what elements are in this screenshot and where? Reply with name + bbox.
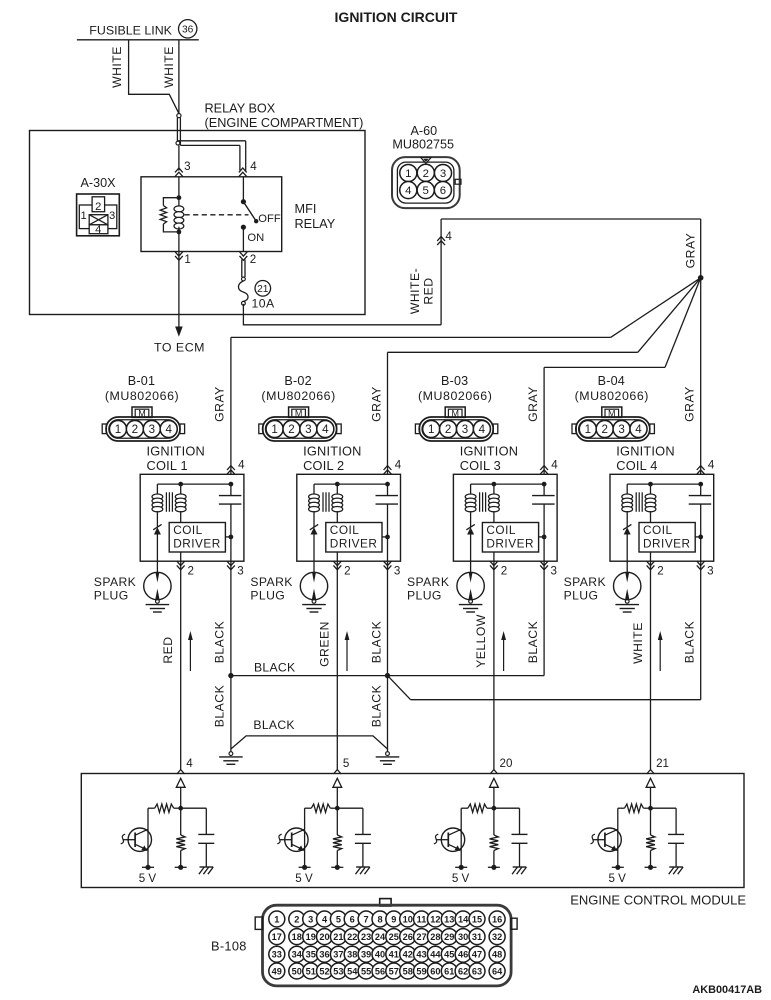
svg-text:2: 2 — [294, 914, 299, 924]
label RELAY BOX (ENGINE COMPARTMENT) — [205, 102, 364, 131]
svg-text:10: 10 — [403, 914, 413, 924]
svg-text:47: 47 — [472, 950, 482, 960]
ECM pin 4 entry — [176, 757, 193, 808]
ECM pin 5 entry — [333, 757, 349, 808]
svg-text:FUSIBLE LINK: FUSIBLE LINK — [89, 23, 172, 37]
svg-text:WHITE-: WHITE- — [408, 268, 422, 314]
svg-text:PLUG: PLUG — [94, 589, 129, 603]
terminal 5V pulldown cell 3 — [488, 865, 500, 870]
svg-text:13: 13 — [444, 914, 454, 924]
svg-text:COIL: COIL — [173, 523, 203, 537]
svg-text:11: 11 — [417, 914, 427, 924]
diode spark gap mark coil 2 — [310, 524, 318, 561]
svg-text:29: 29 — [444, 932, 454, 942]
svg-text:25: 25 — [389, 932, 399, 942]
svg-text:IGNITION CIRCUIT: IGNITION CIRCUIT — [335, 9, 458, 25]
svg-text:ENGINE CONTROL MODULE: ENGINE CONTROL MODULE — [570, 893, 746, 908]
label SPARK PLUG 1 — [94, 575, 136, 603]
connector A-60 symbol with pins 1-6 — [392, 157, 461, 208]
label MFI RELAY — [295, 202, 336, 231]
resistor base cell 3 — [461, 804, 494, 812]
relay box (engine compartment) enclosure — [30, 131, 366, 315]
svg-text:17: 17 — [272, 932, 282, 942]
svg-text:21: 21 — [257, 284, 269, 295]
connector B-03 labels — [418, 374, 492, 403]
svg-text:BLACK: BLACK — [254, 661, 295, 675]
svg-text:2: 2 — [95, 201, 101, 213]
svg-text:54: 54 — [347, 966, 358, 976]
terminal 5V emitter cell 2 — [299, 865, 311, 870]
svg-text:53: 53 — [333, 966, 343, 976]
svg-text:3: 3 — [551, 565, 557, 578]
coil driver U4 box — [639, 523, 695, 553]
label IGNITION COIL 1 — [147, 444, 205, 473]
wire YELLOW coil 3 pin 2 to ECM — [493, 561, 495, 769]
svg-text:58: 58 — [403, 966, 413, 976]
svg-text:35: 35 — [306, 950, 316, 960]
svg-text:4: 4 — [238, 459, 245, 472]
connector B-01 symbol with pins 1 2 3 4 — [102, 407, 184, 441]
svg-text:37: 37 — [333, 950, 343, 960]
svg-text:6: 6 — [350, 914, 355, 924]
wire coil driver output to pin 2 coil 1 — [180, 552, 182, 561]
capacitor C1 in coil 1 — [219, 484, 242, 561]
svg-text:32: 32 — [492, 932, 502, 942]
svg-text:SPARK: SPARK — [564, 575, 606, 589]
relay pin 1 exit arrow and label — [175, 252, 191, 266]
svg-text:2: 2 — [288, 423, 294, 436]
svg-text:A-30X: A-30X — [81, 176, 117, 190]
svg-text:43: 43 — [416, 950, 426, 960]
arrow TO ECM — [175, 327, 183, 337]
svg-text:16: 16 — [492, 914, 502, 924]
svg-text:COIL: COIL — [330, 523, 360, 537]
svg-text:38: 38 — [347, 950, 357, 960]
svg-text:1: 1 — [184, 253, 190, 266]
svg-text:3: 3 — [237, 565, 243, 578]
wire relay pin 2 double-line to fuse — [242, 260, 245, 278]
connector B-01 labels — [105, 374, 179, 403]
svg-text:21: 21 — [333, 932, 343, 942]
svg-text:41: 41 — [389, 950, 399, 960]
ignition coil 2 pin 4 entry arrow and label — [384, 459, 402, 475]
svg-text:4: 4 — [395, 459, 402, 472]
ignition coil 2 box — [297, 474, 401, 561]
svg-text:55: 55 — [361, 966, 371, 976]
svg-text:2: 2 — [445, 423, 451, 436]
transistor Q1 — [121, 808, 152, 867]
resistor pulldown cell 4 — [646, 808, 655, 867]
svg-text:(MU802066): (MU802066) — [261, 389, 335, 403]
svg-text:5: 5 — [423, 185, 429, 197]
capacitor C4 in coil 4 — [689, 484, 712, 561]
wire coil driver output to pin 2 coil 3 — [493, 552, 495, 561]
svg-text:4: 4 — [322, 423, 329, 436]
wire BLACK bus coil1-coil2 — [231, 675, 388, 677]
svg-text:DRIVER: DRIVER — [330, 537, 378, 551]
wire WHITE-RED riser to gray distribution node — [441, 219, 701, 325]
junction coil 1 black wire — [228, 673, 233, 678]
wire RED coil 1 pin 2 to ECM — [180, 561, 182, 769]
svg-text:33: 33 — [272, 950, 282, 960]
ignition coil 1 pin 3 exit arrow and label — [227, 561, 244, 577]
coil driver U1 box — [169, 523, 225, 553]
ignition coil 2 pin 3 exit arrow and label — [384, 561, 401, 577]
label SPARK PLUG 3 — [407, 575, 449, 603]
terminal 5V pulldown cell 4 — [645, 865, 657, 870]
label IGNITION COIL 2 — [303, 444, 361, 473]
svg-text:2: 2 — [188, 565, 194, 578]
svg-text:4: 4 — [708, 459, 715, 472]
svg-text:COIL 3: COIL 3 — [460, 458, 501, 473]
svg-text:64: 64 — [492, 966, 503, 976]
svg-text:52: 52 — [319, 966, 329, 976]
svg-text:3: 3 — [440, 168, 446, 180]
svg-text:31: 31 — [472, 932, 482, 942]
svg-text:23: 23 — [361, 932, 371, 942]
svg-text:COIL: COIL — [643, 523, 673, 537]
ground coil 2 black wire — [386, 752, 390, 756]
capacitor C2 in coil 2 — [376, 484, 399, 561]
svg-text:COIL 4: COIL 4 — [616, 458, 657, 473]
svg-text:21: 21 — [656, 757, 669, 770]
svg-text:BLACK: BLACK — [526, 621, 540, 663]
svg-text:AKB00417AB: AKB00417AB — [692, 984, 762, 996]
connector B-02 symbol with pins 1 2 3 4 — [259, 407, 341, 441]
ground coil 1 black wire — [229, 752, 233, 756]
connector B-108 body — [255, 899, 517, 986]
ignition coil 4 box — [610, 474, 714, 561]
svg-text:BLACK: BLACK — [682, 621, 696, 663]
capacitor filter cell 1 — [181, 808, 215, 867]
chassis ground cell 1 — [200, 866, 214, 868]
ignition coil 4 pin 4 entry arrow and label — [697, 459, 715, 475]
svg-text:4: 4 — [479, 423, 486, 436]
label IGNITION COIL 3 — [460, 444, 518, 473]
svg-text:B-02: B-02 — [284, 374, 311, 388]
svg-text:COIL 2: COIL 2 — [303, 458, 344, 473]
svg-text:GRAY: GRAY — [213, 386, 227, 422]
svg-text:20: 20 — [319, 932, 329, 942]
svg-text:2: 2 — [344, 565, 350, 578]
svg-text:4: 4 — [635, 423, 642, 436]
svg-text:18: 18 — [292, 932, 302, 942]
svg-text:BLACK: BLACK — [369, 621, 383, 663]
svg-text:SPARK: SPARK — [407, 575, 449, 589]
resistor base cell 2 — [305, 804, 338, 812]
svg-text:GRAY: GRAY — [682, 386, 696, 422]
svg-text:1: 1 — [271, 423, 277, 436]
svg-text:22: 22 — [347, 932, 357, 942]
svg-text:RED: RED — [421, 277, 435, 304]
direction arrow RED wire — [188, 631, 193, 671]
wire coil driver to pin 3 line coil 3 — [539, 535, 547, 540]
svg-text:2: 2 — [657, 565, 663, 578]
transistor Q2 — [277, 808, 308, 867]
relay pin 3 entry arrow and label — [175, 160, 191, 177]
svg-text:36: 36 — [182, 25, 194, 36]
svg-text:5 V: 5 V — [609, 872, 627, 885]
wire BLACK ground bus — [231, 736, 388, 749]
svg-text:2: 2 — [250, 253, 256, 266]
svg-text:15: 15 — [472, 914, 482, 924]
svg-text:(MU802066): (MU802066) — [418, 389, 492, 403]
svg-text:BLACK: BLACK — [213, 621, 227, 663]
wire coil driver to pin 3 line coil 1 — [225, 535, 233, 540]
terminal 5V emitter cell 3 — [455, 865, 467, 870]
ignition coil 4 transformer — [622, 482, 703, 527]
ignition coil 1 box — [140, 474, 244, 561]
label WHITE-RED — [408, 268, 436, 314]
wire gray feed to ignition coil 4 pin 4 — [700, 278, 702, 475]
ECM pin 20 entry — [490, 757, 513, 808]
terminal 5V emitter cell 4 — [612, 865, 624, 870]
svg-text:1: 1 — [428, 423, 434, 436]
relay pin 4 entry arrow and label — [239, 160, 257, 177]
ECM driver cell 4 junction — [648, 806, 653, 811]
ignition coil 3 pin 3 exit arrow and label — [540, 561, 557, 577]
wire fuse output to WHITE-RED riser — [243, 304, 441, 325]
svg-text:OFF: OFF — [258, 213, 281, 225]
svg-text:B-03: B-03 — [441, 374, 468, 388]
wire relay pin 1 to ECM — [178, 252, 180, 328]
svg-text:63: 63 — [472, 966, 482, 976]
svg-text:62: 62 — [458, 966, 468, 976]
svg-text:IGNITION: IGNITION — [303, 444, 361, 459]
svg-text:(MU802066): (MU802066) — [575, 389, 649, 403]
svg-text:SPARK: SPARK — [250, 575, 292, 589]
ignition coil 4 pin 3 exit arrow and label — [697, 561, 714, 577]
wire WHITE coil 4 pin 2 to ECM — [650, 561, 652, 769]
node gray distribution junction — [698, 275, 704, 281]
svg-text:34: 34 — [292, 950, 303, 960]
ignition coil 1 pin 2 exit arrow and label — [177, 561, 194, 577]
wire BLACK coil 4 pin 3 to junction — [388, 561, 701, 700]
svg-text:50: 50 — [292, 966, 302, 976]
direction arrow GREEN wire — [345, 631, 350, 671]
svg-text:4: 4 — [250, 160, 257, 173]
connector B-04 labels — [575, 374, 649, 403]
svg-text:3: 3 — [707, 565, 713, 578]
spark plug 2 symbol — [300, 561, 327, 600]
svg-text:20: 20 — [500, 757, 513, 770]
svg-text:BLACK: BLACK — [253, 718, 294, 732]
svg-text:DRIVER: DRIVER — [173, 537, 221, 551]
svg-text:27: 27 — [416, 932, 426, 942]
svg-text:1: 1 — [80, 210, 86, 222]
svg-text:3: 3 — [149, 423, 155, 436]
svg-text:2: 2 — [423, 168, 429, 180]
svg-text:GRAY: GRAY — [369, 386, 383, 422]
fuse 21 10A symbol — [238, 277, 248, 305]
svg-text:9: 9 — [391, 914, 396, 924]
resistor base cell 1 — [148, 804, 181, 812]
svg-text:(ENGINE COMPARTMENT): (ENGINE COMPARTMENT) — [205, 116, 364, 130]
svg-text:14: 14 — [458, 914, 469, 924]
svg-text:49: 49 — [272, 966, 282, 976]
svg-text:MFI: MFI — [295, 202, 317, 216]
svg-text:36: 36 — [319, 950, 329, 960]
svg-text:10A: 10A — [252, 297, 276, 311]
relay switch contacts OFF ON — [241, 177, 281, 252]
ground spark plug 4 — [625, 599, 629, 603]
capacitor C3 in coil 3 — [532, 484, 555, 561]
svg-text:B-108: B-108 — [211, 939, 247, 954]
svg-text:2: 2 — [501, 565, 507, 578]
relay pin 2 exit arrow and label — [240, 252, 257, 266]
svg-text:44: 44 — [430, 950, 441, 960]
ignition coil 1 pin 4 entry arrow and label — [227, 459, 245, 475]
wire coil driver to pin 3 line coil 4 — [695, 535, 703, 540]
fusible link bus bar — [77, 39, 199, 41]
svg-text:3: 3 — [109, 210, 115, 222]
svg-text:4: 4 — [186, 757, 193, 770]
ECM driver cell 1 junction — [178, 806, 183, 811]
label SPARK PLUG 4 — [564, 575, 606, 603]
svg-text:48: 48 — [492, 950, 502, 960]
svg-text:5 V: 5 V — [452, 872, 470, 885]
svg-text:SPARK: SPARK — [94, 575, 136, 589]
svg-text:3: 3 — [462, 423, 468, 436]
svg-text:19: 19 — [306, 932, 316, 942]
svg-text:40: 40 — [375, 950, 385, 960]
coil driver U3 box — [482, 523, 538, 553]
svg-text:5: 5 — [343, 757, 349, 770]
svg-text:3: 3 — [184, 160, 190, 173]
relay coil with parallel resistor — [160, 177, 184, 252]
svg-text:45: 45 — [444, 950, 454, 960]
svg-text:61: 61 — [444, 966, 454, 976]
ground spark plug 1 — [156, 599, 160, 603]
svg-text:7: 7 — [364, 914, 369, 924]
wire gray feed to ignition coil 1 pin 4 — [231, 278, 701, 475]
svg-text:24: 24 — [375, 932, 386, 942]
chassis ground cell 2 — [356, 866, 370, 868]
svg-text:26: 26 — [403, 932, 413, 942]
svg-text:39: 39 — [361, 950, 371, 960]
ground spark plug 2 — [312, 599, 316, 603]
svg-text:PLUG: PLUG — [407, 589, 442, 603]
svg-text:4: 4 — [165, 423, 172, 436]
relay actuation dashed link — [185, 214, 249, 216]
coil driver U2 box — [326, 523, 382, 553]
connector bullet at harness junction — [177, 114, 181, 118]
svg-text:B-04: B-04 — [598, 374, 625, 388]
svg-text:YELLOW: YELLOW — [474, 614, 488, 668]
svg-text:8: 8 — [377, 914, 382, 924]
ignition coil 3 pin 4 entry arrow and label — [540, 459, 558, 475]
svg-text:3: 3 — [394, 565, 400, 578]
svg-text:IGNITION: IGNITION — [147, 444, 205, 459]
svg-text:WHITE: WHITE — [110, 46, 124, 88]
svg-text:TO ECM: TO ECM — [154, 341, 205, 355]
svg-text:3: 3 — [308, 914, 313, 924]
wire BLACK coil 2 pin 3 down to ground — [387, 561, 389, 751]
svg-text:46: 46 — [458, 950, 468, 960]
svg-text:51: 51 — [306, 966, 316, 976]
svg-text:WHITE: WHITE — [162, 46, 176, 88]
capacitor filter cell 2 — [337, 808, 371, 867]
ignition coil 1 transformer — [152, 482, 233, 527]
ignition coil 3 box — [453, 474, 557, 561]
spark plug 4 symbol — [614, 561, 641, 600]
resistor pulldown cell 1 — [176, 808, 185, 867]
label IGNITION COIL 4 — [616, 444, 674, 473]
terminal 5V pulldown cell 1 — [175, 865, 187, 870]
connector B-108 pins 1-64 — [269, 911, 505, 979]
chassis ground cell 4 — [669, 866, 683, 868]
svg-text:30: 30 — [458, 932, 468, 942]
svg-text:3: 3 — [305, 423, 311, 436]
svg-text:1: 1 — [405, 168, 411, 180]
svg-text:IGNITION: IGNITION — [460, 444, 518, 459]
resistor base cell 4 — [618, 804, 651, 812]
svg-text:BLACK: BLACK — [213, 685, 227, 727]
svg-text:A-60: A-60 — [410, 124, 437, 138]
transistor Q3 — [434, 808, 465, 867]
terminal 5V pulldown cell 2 — [331, 865, 343, 870]
ignition coil 3 pin 2 exit arrow and label — [490, 561, 507, 577]
svg-text:1: 1 — [585, 423, 591, 436]
ECM driver cell 3 junction — [492, 806, 497, 811]
svg-text:5 V: 5 V — [139, 872, 157, 885]
wire BLACK coil 1 pin 3 down to ground — [230, 561, 232, 751]
svg-text:4: 4 — [405, 185, 411, 197]
fusible link 36 label — [89, 20, 197, 38]
branch bullet — [176, 141, 180, 145]
svg-text:WHITE: WHITE — [631, 622, 645, 664]
wire WHITE left from fusible link — [129, 40, 179, 114]
wire coil driver to pin 3 line coil 2 — [382, 535, 390, 540]
svg-text:GRAY: GRAY — [683, 233, 697, 269]
label SPARK PLUG 2 — [250, 575, 292, 603]
svg-text:(MU802066): (MU802066) — [105, 389, 179, 403]
fuse number 21 circled — [255, 281, 271, 297]
svg-text:28: 28 — [430, 932, 440, 942]
svg-text:MU802755: MU802755 — [392, 138, 454, 152]
connector A-60 labels — [392, 124, 454, 152]
connector B-04 symbol with pins 1 2 3 4 — [572, 407, 654, 441]
ignition coil 2 transformer — [309, 482, 390, 527]
svg-text:5: 5 — [336, 914, 341, 924]
terminal 5V emitter cell 1 — [142, 865, 154, 870]
svg-text:57: 57 — [389, 966, 399, 976]
wire WHITE right from fusible link — [178, 40, 180, 114]
diode spark gap mark coil 1 — [153, 524, 161, 561]
svg-text:60: 60 — [430, 966, 440, 976]
capacitor filter cell 4 — [651, 808, 685, 867]
connector B-03 symbol with pins 1 2 3 4 — [415, 407, 497, 441]
relay MFI RELAY box — [141, 177, 282, 252]
spark plug 3 symbol — [457, 561, 484, 600]
wire BLACK coil 3 pin 3 to junction — [388, 561, 545, 675]
direction arrow WHITE wire — [658, 631, 663, 671]
svg-text:PLUG: PLUG — [250, 589, 285, 603]
wire GREEN coil 2 pin 2 to ECM — [336, 561, 338, 769]
wire coil driver output to pin 2 coil 2 — [336, 552, 338, 561]
arrow on WHITE-RED riser — [437, 237, 445, 241]
direction arrow YELLOW wire — [501, 631, 506, 671]
ground spark plug 3 — [469, 599, 473, 603]
engine control module box — [81, 774, 744, 888]
transistor Q4 — [591, 808, 622, 867]
ignition coil 2 pin 2 exit arrow and label — [333, 561, 350, 577]
wire coil driver output to pin 2 coil 4 — [650, 552, 652, 561]
svg-text:GRAY: GRAY — [526, 386, 540, 422]
svg-text:12: 12 — [430, 914, 440, 924]
spark plug 1 symbol — [144, 561, 171, 600]
svg-text:6: 6 — [440, 185, 446, 197]
